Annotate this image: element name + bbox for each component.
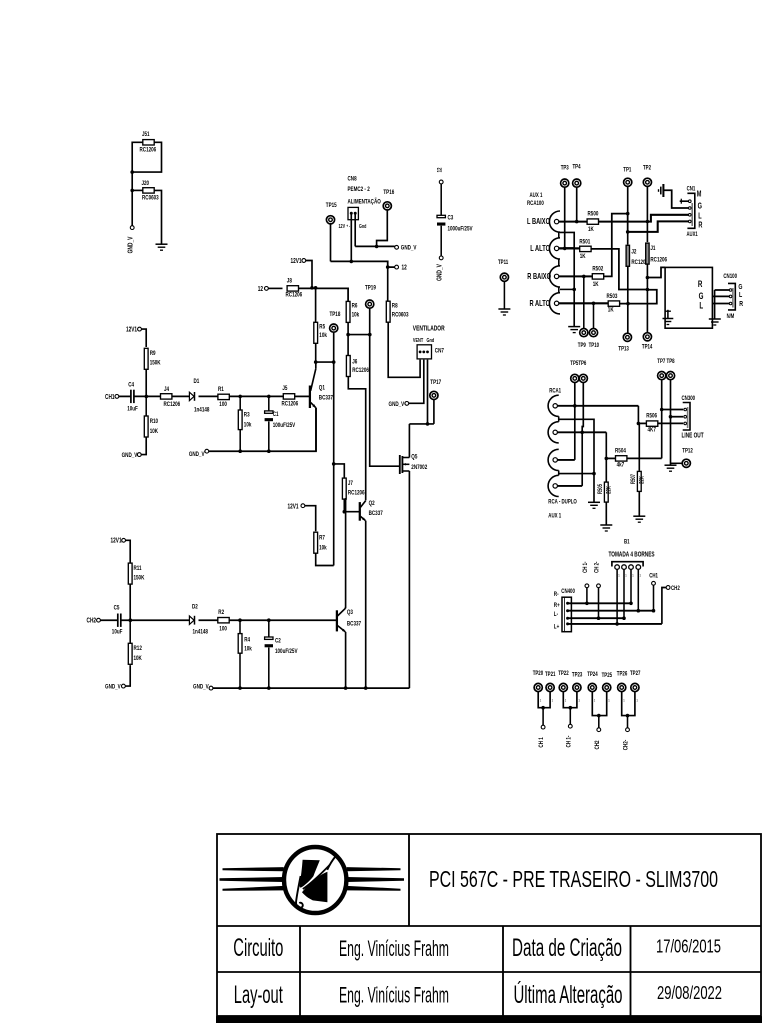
svg-text:Gnd: Gnd	[359, 224, 366, 230]
svg-text:TP25: TP25	[602, 672, 612, 679]
wire R504 to TP7 column	[627, 457, 662, 459]
wire shield stub R BAIXO	[560, 288, 574, 290]
terminal CH2-	[626, 728, 630, 732]
wire pin1 row	[662, 409, 684, 411]
svg-text:100uF/25V: 100uF/25V	[273, 422, 296, 429]
title block logo cell divider	[408, 834, 410, 926]
terminal GND_V	[130, 226, 134, 230]
svg-text:C2: C2	[275, 638, 281, 645]
svg-text:R7: R7	[319, 535, 325, 542]
wire duplo shield stub top	[558, 416, 560, 421]
svg-text:L BAIXO: L BAIXO	[527, 217, 550, 226]
wire TP18 column down	[333, 332, 335, 565]
ground	[156, 243, 168, 245]
node junction GND_V	[375, 245, 379, 249]
svg-text:1: 1	[623, 698, 625, 703]
svg-text:VENT: VENT	[413, 337, 423, 344]
wire J5 to Q1 base	[295, 395, 309, 397]
svg-text:B1: B1	[624, 539, 630, 546]
node junction Q2 base	[343, 510, 347, 514]
wire TP15 to 12 rail	[330, 224, 332, 261]
node junction TP7/pin1 row	[660, 408, 664, 412]
logo glyph tail	[296, 876, 303, 908]
svg-text:L: L	[699, 300, 703, 311]
terminal 12V1	[302, 259, 306, 263]
svg-text:CN8: CN8	[348, 176, 357, 183]
svg-text:TP24: TP24	[587, 671, 598, 678]
test point TP5	[571, 374, 579, 382]
transistor Q3 BC337	[336, 610, 338, 631]
svg-text:1: 1	[618, 573, 620, 578]
wire TP pair 3	[592, 692, 606, 716]
node junction CH2- row3	[597, 616, 601, 620]
svg-text:100: 100	[219, 401, 227, 408]
svg-text:Q5: Q5	[411, 454, 418, 461]
terminal CH2 node	[666, 586, 670, 590]
svg-text:12V1: 12V1	[111, 538, 123, 545]
terminal CH2-	[597, 584, 601, 588]
node junction R-pin rail	[626, 230, 630, 234]
svg-text:GND_V: GND_V	[189, 451, 205, 458]
svg-text:CN400: CN400	[561, 589, 575, 596]
svg-text:TP19: TP19	[365, 285, 376, 292]
node junction C2 top	[267, 618, 271, 622]
svg-text:1: 1	[578, 698, 580, 703]
borne 3	[629, 565, 634, 570]
svg-text:1: 1	[640, 573, 642, 578]
svg-text:M: M	[697, 191, 702, 199]
node junction TP18 column	[332, 360, 336, 364]
svg-text:R10: R10	[150, 419, 158, 426]
chassis symbol at CN1	[662, 184, 664, 197]
capacitor C2	[268, 620, 270, 637]
svg-text:1: 1	[636, 698, 638, 703]
svg-text:R501: R501	[579, 239, 591, 246]
svg-text:12V: 12V	[339, 224, 346, 230]
wire R505 top	[605, 458, 607, 481]
wire R507 bottom to ground	[638, 492, 640, 516]
svg-text:1n4148: 1n4148	[193, 629, 208, 636]
svg-text:TP22: TP22	[558, 670, 568, 677]
wire CN8 Gnd pin down	[354, 215, 356, 247]
resistor R3	[239, 396, 241, 410]
wire R BAIXO row	[559, 275, 593, 277]
node junction borne3 row1	[629, 602, 633, 606]
resistor R506	[646, 421, 657, 426]
terminal 12 top	[439, 180, 443, 184]
svg-text:GND_V: GND_V	[122, 452, 138, 459]
svg-text:CH 2-: CH 2-	[594, 561, 601, 573]
logo speed lines left	[223, 867, 284, 871]
wire TP8 column to ground	[670, 380, 672, 465]
logo speed lines right	[347, 867, 401, 871]
wire GND_V row	[355, 245, 395, 247]
ground CN100	[709, 318, 721, 320]
ground duplo shield	[588, 501, 600, 503]
node junction Q1 collector	[314, 360, 318, 364]
transistor Q2 BC337	[359, 502, 361, 521]
wire R6 row to TP19 column	[348, 334, 370, 336]
node junction borne2 row3	[622, 616, 626, 620]
wire J1 bottom to TP14	[646, 264, 648, 332]
svg-text:TP15: TP15	[326, 203, 338, 210]
wire box to CN100 R	[712, 303, 729, 305]
svg-text:J7: J7	[348, 480, 353, 487]
svg-text:10k: 10k	[319, 545, 327, 552]
svg-text:TP3: TP3	[561, 165, 569, 172]
svg-text:R2: R2	[218, 609, 224, 616]
svg-text:TP17: TP17	[430, 380, 441, 387]
wire 12 to J8	[268, 287, 282, 289]
test point TP9	[580, 329, 588, 337]
svg-text:TP9: TP9	[578, 342, 586, 349]
svg-text:R4: R4	[244, 637, 250, 644]
node junction TP4/L BAIXO	[575, 220, 579, 224]
test point TP12	[682, 459, 690, 467]
wire pair 3 to terminal	[598, 716, 600, 728]
svg-text:TP2: TP2	[643, 165, 651, 172]
svg-text:1: 1	[552, 698, 554, 703]
wire J20 to ground	[154, 190, 161, 243]
wire TP6 column	[582, 383, 583, 486]
wire chassis to G pin	[663, 190, 688, 208]
resistor J51	[143, 140, 154, 145]
capacitor C1	[268, 396, 270, 411]
node junction CH2/R11/R12	[129, 618, 133, 622]
node junction R6/TP19 row	[346, 333, 350, 337]
resistor R6	[346, 301, 350, 322]
transistor Q1 BC337	[309, 386, 311, 409]
wire GND_V row ch2	[213, 687, 410, 689]
svg-text:CH2: CH2	[671, 585, 680, 592]
terminal GND_V ch2 row	[209, 686, 213, 690]
svg-text:AUX1: AUX1	[687, 231, 698, 238]
borne 1	[615, 565, 620, 570]
ground TP8 column	[665, 464, 677, 466]
wire 12 column to R8	[387, 267, 389, 301]
ground inside module box	[667, 310, 669, 319]
node junction TP pair 1	[541, 706, 545, 710]
wire 12V1 to R9	[141, 329, 146, 347]
node junction shield duplo	[592, 472, 596, 476]
svg-text:L+: L+	[554, 624, 560, 631]
svg-text:R505: R505	[597, 484, 604, 494]
wire J7 bottom to Q2 base	[344, 499, 359, 512]
wire TP19 column down to Q5 gate	[370, 308, 399, 466]
logo glyph upper block	[300, 860, 320, 888]
node junction J20	[130, 189, 134, 193]
wire CH2 to C5	[100, 619, 117, 621]
svg-text:10k: 10k	[244, 646, 252, 653]
capacitor C3	[437, 215, 445, 217]
wire D2 to R2	[199, 619, 219, 621]
resistor J2	[626, 245, 629, 266]
wire 12V1 ch2 to R11	[126, 540, 131, 562]
wire TP pair 4	[622, 692, 635, 716]
svg-text:R12: R12	[134, 646, 142, 653]
node junction C1 top	[267, 395, 271, 399]
svg-text:LINE OUT: LINE OUT	[682, 433, 704, 440]
node junction shield	[572, 288, 576, 292]
svg-text:TP10: TP10	[589, 342, 599, 349]
wire L ALTO row	[559, 247, 574, 249]
svg-text:R BAIXO: R BAIXO	[527, 272, 551, 281]
terminal GND_V	[395, 245, 399, 249]
terminal 12V1 ch1	[138, 327, 142, 331]
svg-text:1: 1	[594, 698, 596, 703]
svg-text:10uF: 10uF	[127, 406, 138, 413]
node junction J2 column / R503 row	[626, 302, 630, 306]
svg-text:RC1206: RC1206	[352, 367, 369, 374]
svg-text:R ALTO: R ALTO	[530, 299, 551, 308]
node junction TP3/L ALTO	[563, 247, 567, 251]
svg-text:R: R	[698, 279, 703, 290]
svg-text:ALIMENTAÇÃO: ALIMENTAÇÃO	[348, 198, 382, 206]
svg-text:RC1206: RC1206	[164, 401, 181, 408]
node junction R3 bottom	[238, 449, 242, 453]
logo circle	[284, 847, 346, 913]
node junction TP pair 4	[626, 714, 630, 718]
svg-text:4k7: 4k7	[617, 462, 625, 469]
wire borne2 down	[623, 569, 625, 618]
node junction CN7 pin3 row	[426, 422, 430, 426]
test point TP14	[643, 333, 651, 341]
svg-text:10uF: 10uF	[112, 629, 123, 636]
wire GND_V row ch1	[209, 408, 316, 452]
wire TP1 column to R-pin rail	[627, 214, 629, 232]
wire borne4 down	[637, 569, 639, 610]
svg-text:150K: 150K	[134, 575, 146, 582]
svg-text:BC337: BC337	[369, 510, 383, 517]
svg-text:C5: C5	[114, 605, 120, 612]
wire TP1 down to J2	[627, 187, 629, 245]
wire R9 bottom	[145, 369, 147, 396]
wire TP pair 1	[538, 692, 550, 708]
node junction TP pair 2	[569, 706, 573, 710]
svg-text:1000uF/25V: 1000uF/25V	[448, 226, 473, 233]
svg-text:CH1: CH1	[649, 573, 658, 580]
ground TP11	[498, 308, 510, 310]
diode D1	[189, 392, 194, 400]
ground R507	[633, 515, 645, 517]
svg-text:TP21: TP21	[545, 671, 555, 678]
node junction J7 row / TP18 column	[332, 462, 336, 466]
wire TP18 node to J7	[334, 464, 345, 478]
svg-text:R11: R11	[134, 565, 143, 572]
svg-text:R: R	[739, 300, 743, 308]
wire R pin rail	[628, 221, 689, 232]
wire R5 column top	[315, 288, 317, 323]
node junction CH1/R9/R10	[145, 395, 149, 399]
svg-text:R500: R500	[588, 211, 599, 218]
wire J20 left stub	[132, 189, 143, 191]
svg-text:R+: R+	[554, 603, 560, 610]
wire R7 bottom to TP18 column	[316, 553, 334, 565]
wire CN7 middle pin to GND_V	[409, 360, 424, 404]
resistor R5	[314, 322, 318, 343]
svg-text:TP13: TP13	[618, 346, 628, 353]
wire CN400 row1 R-	[568, 602, 631, 604]
wire pair 4 to terminal	[627, 716, 629, 728]
node junction Q2 emitter	[364, 686, 368, 690]
transistor Q5 2N7002	[399, 455, 401, 474]
wire borne3 down	[630, 569, 632, 603]
wire TP17 row	[409, 423, 434, 425]
wire TP17 down	[433, 400, 435, 424]
svg-text:R6: R6	[352, 303, 358, 310]
node junction R506 left	[637, 422, 641, 426]
rca jack duplo 3	[548, 449, 559, 470]
svg-text:R8: R8	[392, 303, 398, 310]
resistor R4	[239, 620, 241, 633]
svg-text:C4: C4	[128, 382, 134, 389]
svg-text:CH 1-: CH 1-	[582, 561, 589, 573]
svg-text:C3: C3	[448, 215, 454, 222]
rca jack duplo 1	[548, 395, 559, 416]
wire C3 top	[440, 184, 442, 215]
node junction C1 bottom	[267, 449, 271, 453]
svg-text:CH1: CH1	[105, 394, 115, 401]
wire R501 to J1 bottom node	[591, 249, 647, 290]
wire to R506	[638, 422, 646, 424]
node junction CH1- row1	[585, 602, 589, 606]
svg-text:TP7 TP8: TP7 TP8	[657, 358, 674, 365]
svg-text:L: L	[698, 212, 702, 220]
wire C5 to D2	[121, 619, 189, 621]
wire Q1 emitter down	[315, 408, 317, 452]
wire C3 bottom	[440, 226, 442, 256]
svg-text:CN1: CN1	[687, 186, 696, 193]
resistor R1	[218, 394, 229, 399]
svg-text:AUX 1: AUX 1	[530, 192, 543, 199]
wire duplo shield tie2	[559, 473, 594, 475]
svg-text:R5: R5	[319, 324, 325, 331]
wire J4 to D1	[172, 395, 189, 397]
svg-text:R506: R506	[646, 413, 657, 420]
borne 2	[622, 565, 627, 570]
svg-text:RCA - DUPLO: RCA - DUPLO	[548, 499, 577, 506]
wire duplo shield tie1	[559, 419, 594, 502]
svg-text:J6: J6	[352, 359, 357, 366]
wire shield bus	[560, 232, 574, 326]
node junction R5 column	[314, 286, 318, 290]
resistor R9	[144, 348, 148, 369]
node junction TP8/pin2 row	[669, 415, 673, 419]
svg-text:PEMC2 - 2: PEMC2 - 2	[348, 186, 370, 193]
wire TP9 up	[583, 276, 585, 328]
node junction TP19 column	[368, 333, 372, 337]
svg-text:N/M: N/M	[727, 314, 735, 321]
wire Q3 emitter down	[345, 632, 347, 688]
svg-text:TP4: TP4	[573, 164, 582, 171]
svg-text:TP5TP6: TP5TP6	[570, 360, 586, 367]
svg-text:R504: R504	[615, 448, 627, 455]
resistor R503	[608, 301, 619, 306]
svg-text:GND_V: GND_V	[105, 684, 121, 691]
wire duplo shield stub bottom	[558, 471, 560, 476]
svg-text:PCI 567C - PRE TRASEIRO - SLIM: PCI 567C - PRE TRASEIRO - SLIM3700	[429, 866, 718, 892]
svg-text:J1: J1	[650, 245, 656, 252]
wire rca shield stubs	[558, 232, 560, 238]
borne 4	[636, 565, 641, 570]
wire R506 to pin3	[658, 422, 683, 424]
svg-text:22K: 22K	[606, 486, 613, 494]
title block outer frame	[217, 834, 761, 1016]
svg-text:100: 100	[219, 626, 227, 633]
resistor R501	[580, 246, 591, 251]
svg-text:R1: R1	[218, 387, 224, 394]
wire TP10 up	[593, 303, 595, 328]
wire to GND_V terminal	[131, 190, 133, 225]
capacitor C4	[130, 390, 132, 403]
wire gnd to R12	[125, 665, 130, 686]
svg-text:Gnd: Gnd	[427, 337, 435, 344]
svg-text:Q3: Q3	[347, 609, 353, 616]
wire GND row corner	[408, 687, 410, 689]
resistor R505	[604, 482, 608, 502]
wire D1 to R1	[199, 395, 219, 397]
terminal CH 1-	[568, 724, 572, 728]
svg-text:1K: 1K	[593, 281, 600, 288]
svg-text:J4: J4	[164, 387, 170, 394]
wire TP4 down to L BAIXO	[576, 187, 578, 221]
resistor J5	[283, 394, 294, 399]
svg-text:Q2: Q2	[369, 500, 375, 507]
terminal CH2	[97, 618, 101, 622]
svg-text:D2: D2	[192, 604, 198, 611]
svg-text:Data de Criação: Data de Criação	[512, 934, 622, 962]
svg-text:RC1206: RC1206	[140, 147, 157, 154]
wire duplo row1	[557, 405, 638, 407]
wire R10 top	[145, 396, 147, 416]
svg-text:R3: R3	[244, 412, 250, 419]
wire R502 up to TP1 column	[604, 214, 628, 277]
terminal CH1-	[585, 584, 589, 588]
svg-text:10k: 10k	[244, 422, 252, 429]
svg-text:17/06/2015: 17/06/2015	[656, 937, 721, 957]
terminal 12V1 R7	[301, 504, 305, 508]
connector CN8	[348, 207, 358, 219]
terminal CH1 node	[652, 581, 656, 585]
svg-text:150K: 150K	[150, 360, 162, 367]
test point TP6	[579, 374, 587, 382]
svg-text:CH 1: CH 1	[538, 737, 545, 748]
resistor J8	[287, 286, 298, 291]
node junction TP10/R ALTO	[592, 302, 596, 306]
svg-text:Circuito: Circuito	[233, 934, 283, 962]
terminal CH1	[115, 395, 119, 399]
resistor J6	[346, 356, 350, 377]
wire CH1 to C4	[119, 395, 131, 397]
svg-text:RC0603: RC0603	[392, 312, 409, 319]
wire J8 rail to R6 column	[299, 288, 349, 301]
svg-text:RC1206: RC1206	[282, 401, 299, 408]
resistor R502	[592, 274, 603, 279]
svg-text:TP27: TP27	[630, 670, 640, 677]
node junction Q3 emitter	[344, 686, 348, 690]
node junction CH1 row2	[652, 609, 656, 613]
node junction TP1/R502	[626, 212, 630, 216]
svg-text:12: 12	[258, 286, 264, 293]
logo glyph top stroke	[327, 856, 336, 870]
svg-text:+ -: + -	[346, 224, 350, 229]
svg-text:R: R	[698, 222, 702, 230]
wire R503 to J1 bottom node2	[620, 290, 657, 304]
svg-text:J51: J51	[142, 132, 150, 139]
svg-text:TOMADA 4 BORNES: TOMADA 4 BORNES	[609, 552, 655, 559]
node junction 12 rail / CN8	[350, 260, 354, 264]
rca jack duplo 4	[548, 475, 559, 496]
